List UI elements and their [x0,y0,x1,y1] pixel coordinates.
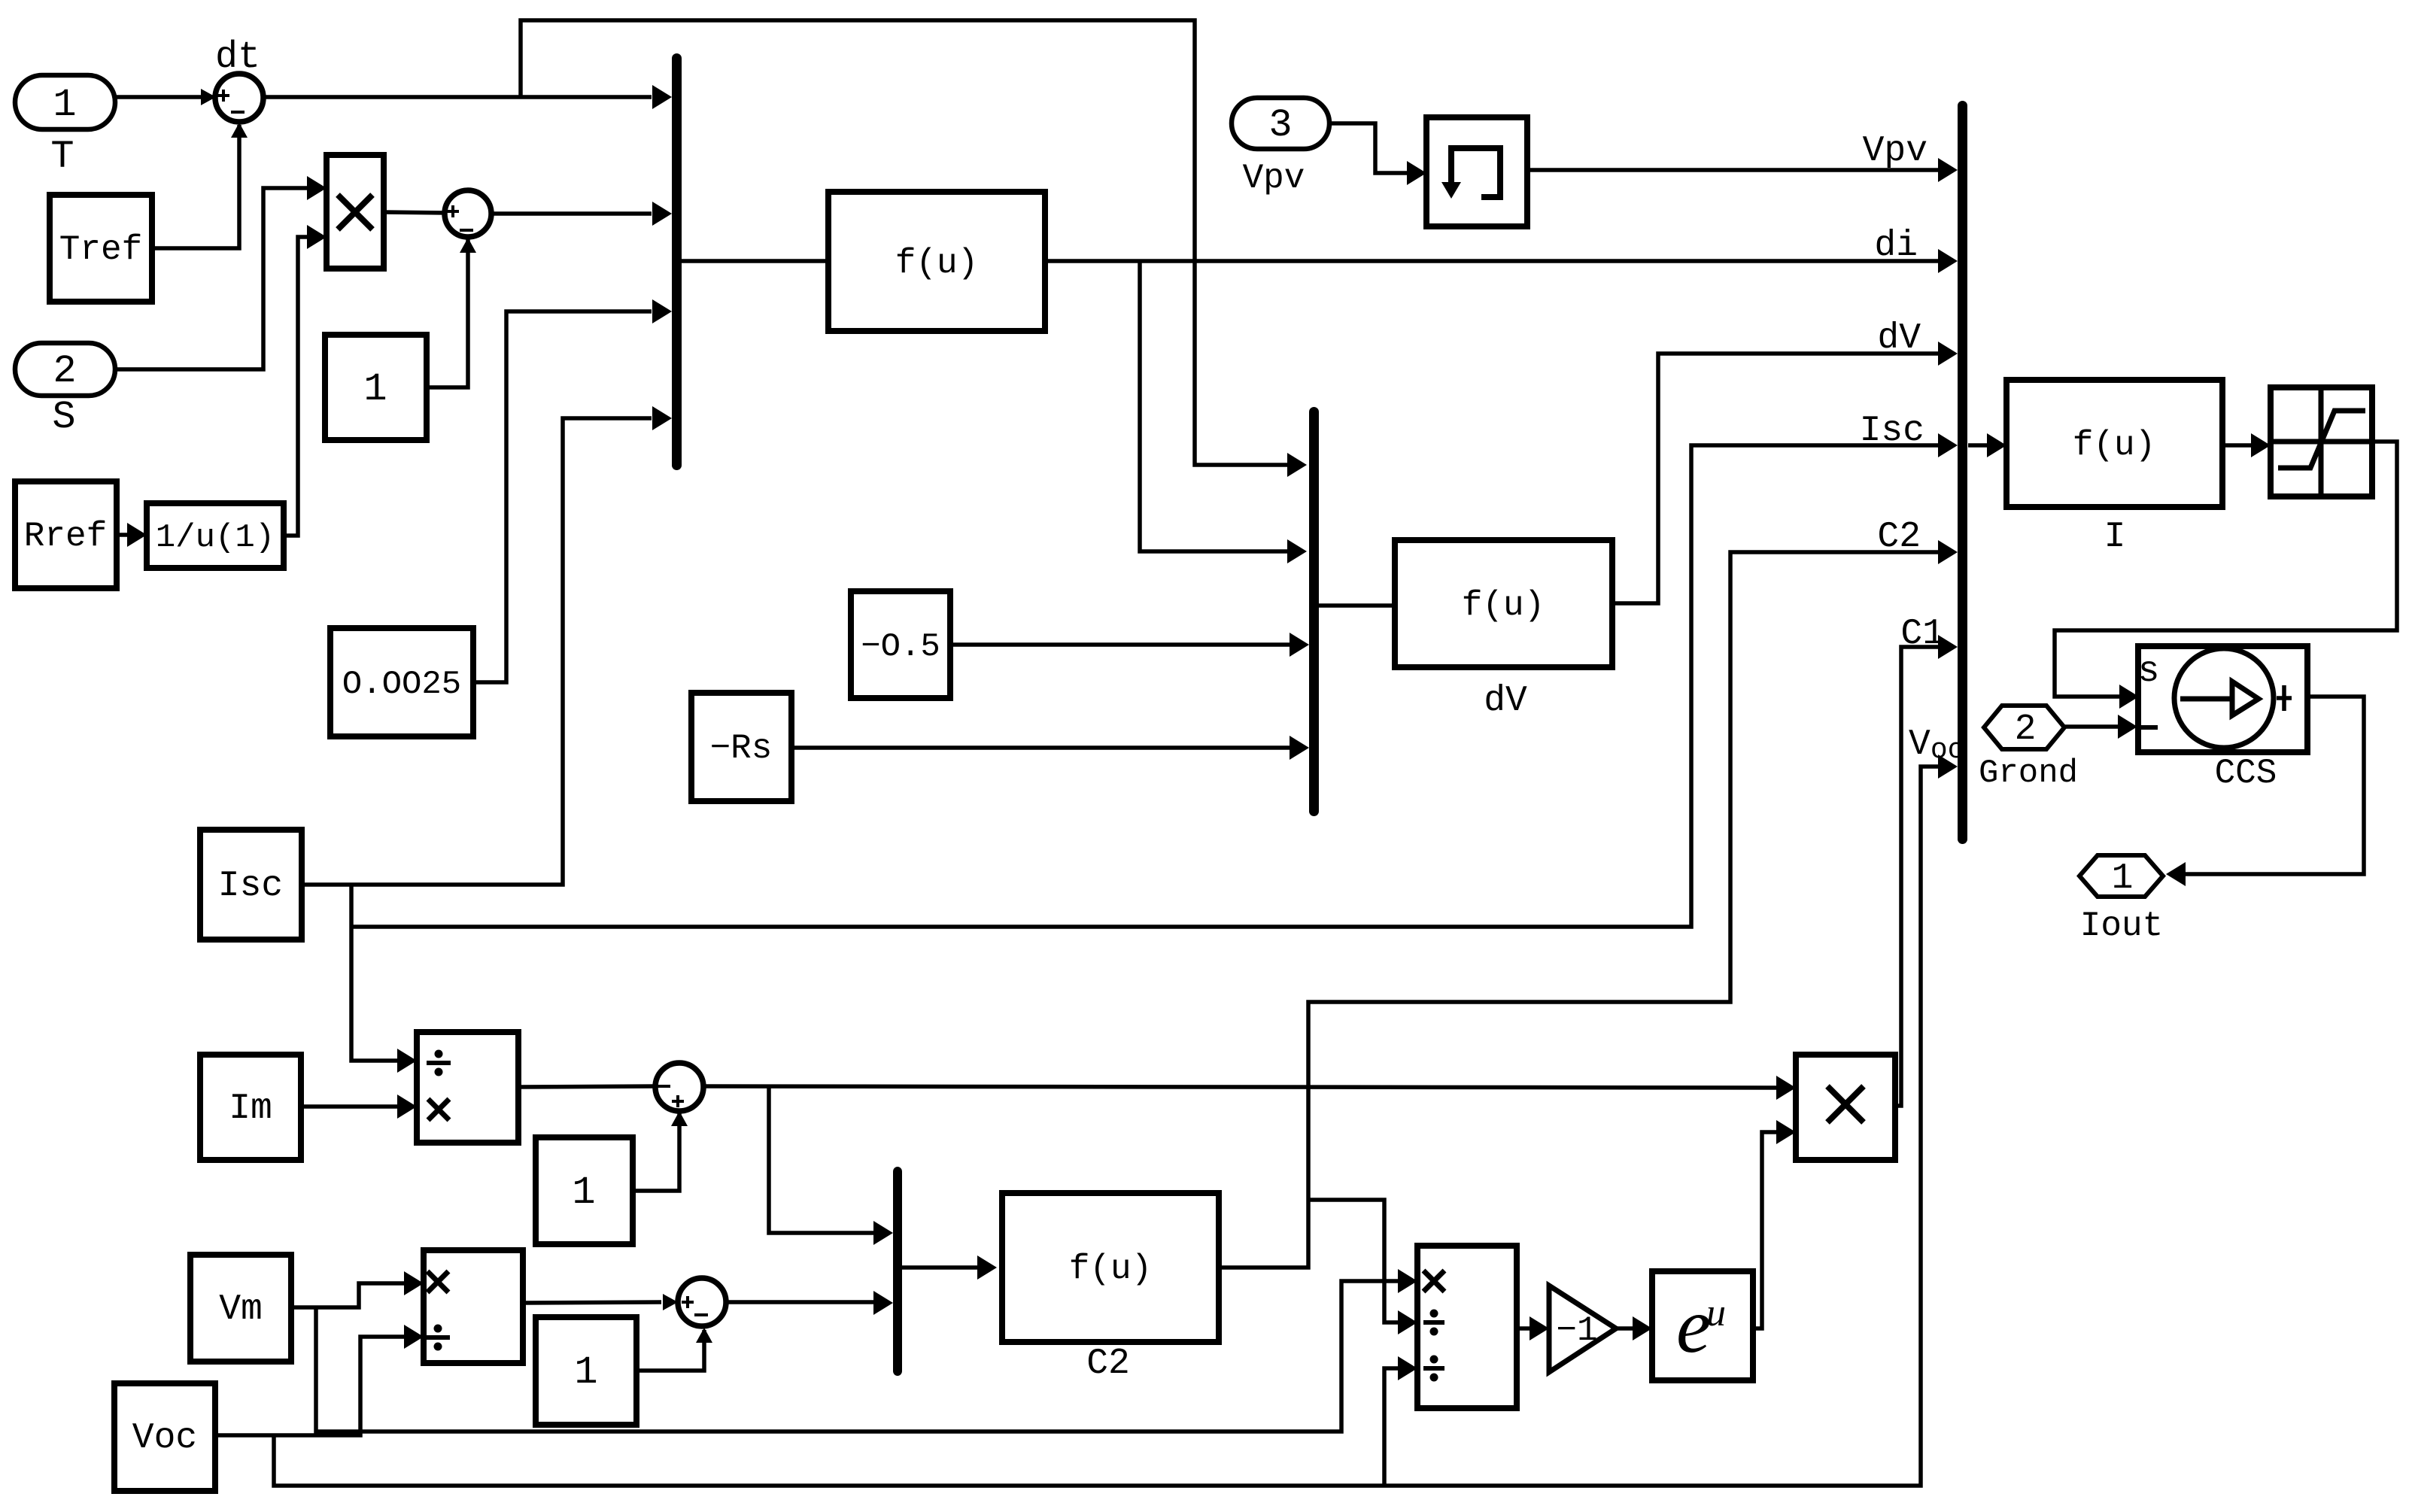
wire 0.0025 to mux1 input 3 [473,299,672,682]
label C2 at mux [1877,517,1921,557]
svg-text:dt: dt [215,36,260,79]
saturation block [2271,387,2372,496]
constant 1 block [325,335,427,440]
constant 1 block c [536,1317,636,1425]
wire mux C2 to fu C2 [902,1255,997,1280]
svg-text:2: 2 [2015,709,2037,750]
svg-text:f(u): f(u) [1462,586,1545,625]
wire Grond to CCS [2064,715,2137,739]
input port 1 T [15,75,115,179]
gain -1 triangle [1549,1286,1616,1372]
wire fu dV output to final mux dV [1612,342,1958,603]
mux1 bar [672,53,682,470]
CCS controlled current source block [2138,646,2307,752]
sum4 block [678,1278,726,1326]
block reciprocal 1/u(1) [147,503,284,568]
svg-text:Vpv: Vpv [1243,159,1305,198]
wire Im to divide input 2 [301,1095,417,1119]
svg-text:1/u(1): 1/u(1) [156,519,275,557]
wire final mux to fu I [1968,433,2006,457]
svg-text:Iout: Iout [2080,906,2163,946]
wire Vpv port to memory [1329,123,1426,185]
wire sum3 long line to multiply [703,1076,1796,1100]
wire const 1 to sum3 bottom [633,1111,688,1191]
memory block [1426,117,1527,226]
block fu I [2006,380,2222,507]
wire mux1 to fu di [682,259,828,263]
wire sum2 to mux1 input 2 [491,202,672,226]
input port 3 Vpv [1232,98,1329,198]
label di at mux [1874,226,1918,266]
svg-text:2: 2 [53,349,76,393]
wire Voc to product2 input 2 [215,1325,424,1435]
svg-text:dV: dV [1877,318,1921,359]
divide block Isc Im [417,1032,518,1143]
block Voc [114,1383,215,1491]
svg-text:I: I [2104,517,2126,557]
wire multiply output to final mux C1 [1895,635,1958,1106]
wire di branch to mux2 input 2 [1140,261,1307,563]
svg-text:Tref: Tref [59,230,142,269]
final mux bar [1958,101,1967,844]
svg-text:O.OO25: O.OO25 [342,666,461,703]
wire mux2 to fu dV [1318,603,1395,608]
wire xdd to gain [1517,1316,1549,1340]
wire saturation to CCS s input [2055,442,2397,709]
constant -Rs block [691,693,791,801]
wire dt feedforward up and to mux2 input 1 [521,20,1307,477]
sum3 block [655,1063,703,1111]
wire Rref to reciprocal [117,523,147,547]
wire sum3 branch to mux C2 input 1 [769,1087,893,1245]
label Vpv at mux [1863,131,1927,172]
block fu C2 [1002,1193,1219,1342]
wire -0.5 to mux2 input 3 [950,633,1309,657]
wire Isc to mux1 input 4 [300,406,672,885]
block Im [200,1055,301,1160]
svg-text:Vm: Vm [219,1289,263,1330]
wire arrow into sum dt [201,89,216,105]
svg-text:1: 1 [53,83,76,127]
wire Voc long line to final mux [274,754,1958,1486]
wire CCS output to Iout [2166,697,2364,886]
wire divide to sum3 [518,1086,656,1087]
wire -Rs to mux2 input 4 [791,736,1309,760]
svg-text:s: s [2138,651,2160,692]
multiply divide divide block [1417,1246,1517,1408]
product2 block Vm over Voc [424,1250,523,1363]
wire T to sum dt [115,95,652,99]
wire Isc branch down [351,885,417,1073]
label C2 under fu [1086,1343,1130,1384]
sum block S minus 1 [445,190,491,237]
wire const 1b to sum4 bottom [636,1328,712,1371]
svg-text:CCS: CCS [2215,754,2277,793]
wire Vm long line to xdd [316,1269,1417,1432]
constant -0.5 block [851,591,950,698]
constant 0.0025 block [330,628,473,736]
block fu di [828,192,1045,331]
label Isc at mux [1860,411,1924,451]
svg-text:Rref: Rref [24,517,107,556]
wire Isc long line to final mux [351,433,1958,927]
wire Vm to product2 input 1 [291,1271,424,1307]
wire fu I to saturation [2222,433,2271,457]
wire product2 to sum4 [523,1294,678,1310]
constant 1 block b [536,1137,633,1244]
svg-text:1: 1 [572,1170,595,1215]
sum block dt [215,36,263,122]
svg-text:3: 3 [1268,103,1292,147]
block Tref [50,195,152,302]
input port 2 S [15,343,115,439]
wire const1 to sum2 bottom [427,238,476,387]
svg-text:C1: C1 [1900,614,1944,654]
svg-text:C2: C2 [1877,517,1921,557]
svg-text:di: di [1874,226,1918,266]
svg-text:−1: −1 [1556,1311,1597,1350]
svg-text:f(u): f(u) [2073,426,2155,465]
mux C2 bar [893,1167,902,1376]
wire exp to multiply input 2 [1753,1120,1796,1328]
svg-text:Voc: Voc [132,1418,197,1459]
svg-text:u: u [1706,1292,1726,1334]
wire S to product input 1 [115,176,327,369]
label dV at mux [1877,318,1921,359]
svg-text:C2: C2 [1086,1343,1130,1384]
wire gain to exp [1616,1316,1652,1340]
wire Tref to sum dt bottom [152,123,248,248]
wire arrow dt into mux1 [652,85,672,109]
svg-text:Isc: Isc [1860,411,1924,451]
exp block e^u [1652,1271,1753,1380]
svg-text:−Rs: −Rs [710,729,773,768]
block Isc [200,830,302,940]
label C1 at mux [1900,614,1944,654]
svg-text:S: S [52,395,75,439]
svg-text:Vpv: Vpv [1863,131,1927,172]
label CCS [2215,754,2277,793]
output port 2 Grond [1979,706,2078,792]
wire product to sum2 [384,212,447,213]
wire reciprocal to product input 2 [284,225,327,536]
wire C2 branch to divider [1308,1200,1417,1334]
svg-text:−O.5: −O.5 [861,628,940,666]
wire C2 from fu C2 to final mux [1219,540,1958,1268]
block Vm [190,1255,291,1362]
svg-text:dV: dV [1484,681,1527,721]
svg-text:1: 1 [2112,858,2134,899]
svg-text:Im: Im [229,1088,272,1129]
wire sum4 to mux C2 input 2 [726,1291,893,1315]
label Voc at mux [1909,724,1964,767]
wire Voc branch to xdd input 3 [1384,1356,1417,1486]
svg-text:f(u): f(u) [1069,1249,1152,1289]
wire fu di output to final mux [1045,249,1958,273]
output port 1 Iout [2079,855,2163,946]
wire memory to final mux Vpv [1528,158,1958,182]
label I under fu [2104,517,2126,557]
block Rref [15,481,117,588]
svg-text:f(u): f(u) [895,244,978,283]
svg-text:Isc: Isc [218,866,283,906]
multiply block C1 [1796,1055,1895,1160]
label dV under fu [1484,681,1527,721]
svg-text:1: 1 [363,367,387,411]
product block T x S [327,155,384,269]
mux2 bar [1309,407,1319,816]
svg-text:T: T [50,135,74,179]
svg-text:1: 1 [574,1350,597,1395]
svg-text:Grond: Grond [1979,754,2078,792]
block fu dV [1395,540,1612,667]
